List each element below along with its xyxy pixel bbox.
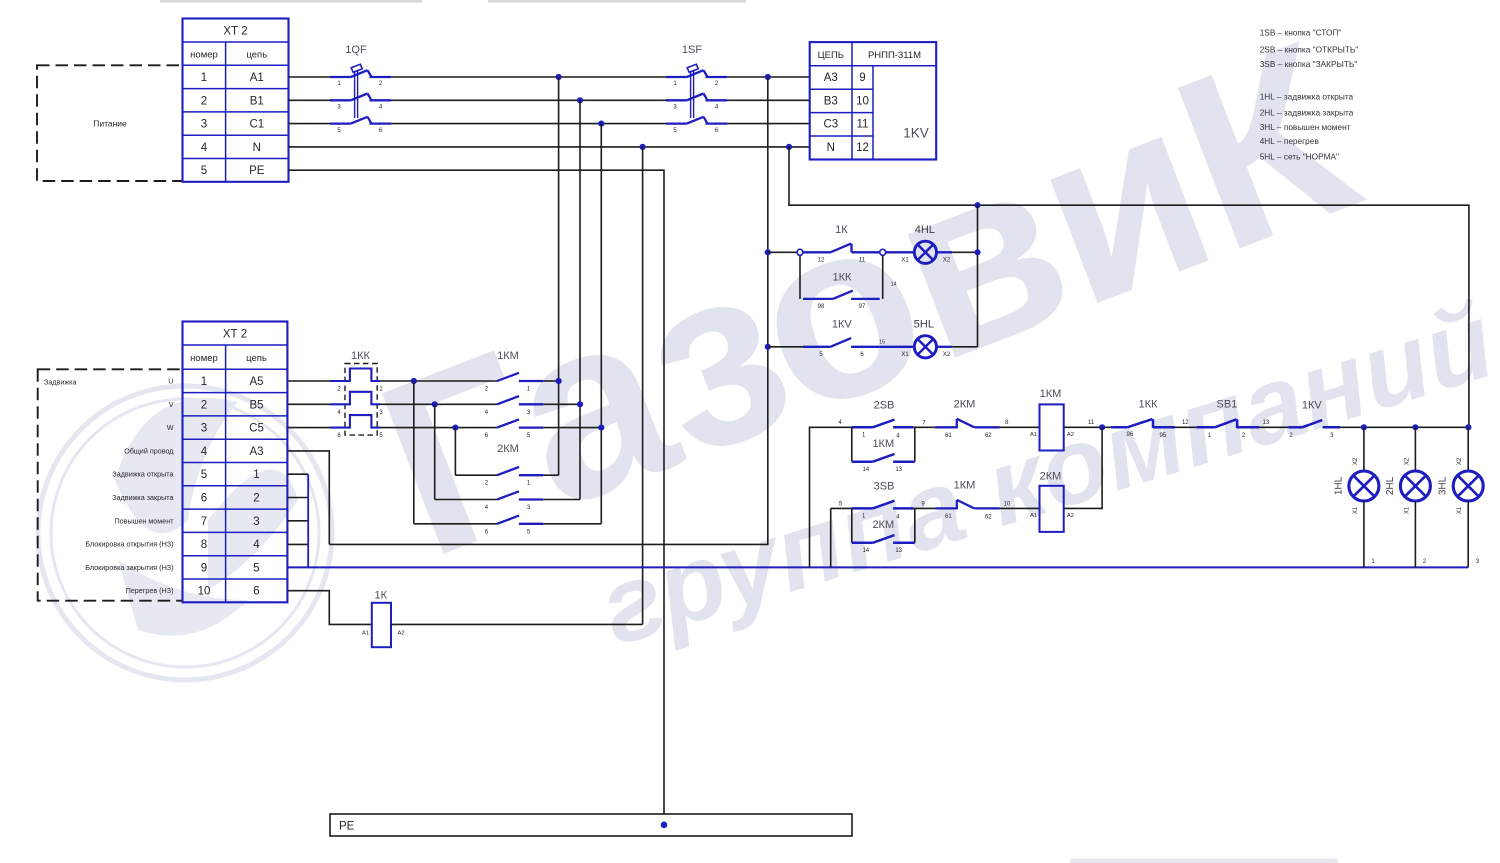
wire 1K coil return to N (391, 623, 643, 625)
button 3SB with 2KM holding contact (831, 481, 915, 555)
svg-text:3: 3 (201, 423, 207, 435)
wire B after 1QF (391, 99, 666, 101)
wire 2KM in row3 (414, 523, 497, 525)
svg-text:Х2: Х2 (1353, 457, 1359, 465)
node A tap (556, 74, 562, 80)
node lamp1 top (1361, 424, 1367, 430)
svg-text:3SB: 3SB (874, 481, 895, 493)
svg-text:РЕ: РЕ (249, 165, 265, 177)
row labels valve table (85, 377, 174, 596)
svg-text:Х1: Х1 (1353, 506, 1359, 514)
node W out (452, 425, 458, 431)
svg-text:Х1: Х1 (1457, 506, 1463, 514)
relay contact 1KV (768, 318, 885, 358)
button 2SB with 1KM holding contact (852, 400, 915, 474)
wire 1KK-SB1 (1175, 426, 1197, 428)
svg-text:11: 11 (859, 258, 866, 264)
wire 2SB-2KM nc (913, 426, 935, 428)
contactor 1KM main contacts (485, 350, 543, 439)
svg-text:3SB – кнопка "ЗАКРЫТЬ": 3SB – кнопка "ЗАКРЫТЬ" (1260, 59, 1358, 69)
svg-text:14: 14 (891, 282, 897, 288)
svg-text:1SF: 1SF (682, 44, 702, 56)
wire phase C vertical (600, 124, 602, 524)
wire to 1KM coil (1000, 426, 1040, 428)
wire 2KM in row1 (455, 474, 497, 476)
wire U table-1KK (287, 380, 330, 382)
svg-text:4: 4 (201, 446, 208, 458)
svg-text:Задвижка закрыта: Задвижка закрыта (112, 493, 173, 502)
contact 1KV nc (1288, 400, 1340, 440)
svg-text:9: 9 (201, 562, 207, 574)
wire C1 table-1QF (289, 123, 331, 125)
svg-text:В1: В1 (250, 95, 264, 107)
lamp 2HL (1385, 427, 1431, 567)
node branch left ring (797, 249, 803, 255)
svg-text:А1: А1 (250, 72, 264, 84)
svg-text:1КК: 1КК (833, 271, 853, 283)
svg-text:Блокировка закрытия (НЗ): Блокировка закрытия (НЗ) (85, 563, 173, 572)
wire N branch to lamps rail (789, 147, 1469, 427)
wire 5HL to right bus (952, 346, 977, 348)
svg-text:С5: С5 (249, 423, 264, 435)
svg-text:3: 3 (253, 516, 259, 528)
svg-text:N: N (827, 142, 835, 154)
contact 1KK nc (1111, 399, 1175, 439)
svg-text:А2: А2 (1067, 513, 1074, 519)
svg-text:3HL: 3HL (1438, 476, 1449, 495)
svg-text:96: 96 (1127, 432, 1134, 438)
node branch right ring (880, 249, 886, 255)
wire crossover B down (434, 404, 436, 499)
svg-text:U: U (168, 377, 173, 386)
wire 1KM out row3 (543, 427, 601, 429)
wire A3 to РНПП (727, 76, 810, 78)
node lamp2 top (1412, 424, 1418, 430)
wire U after 1KK (380, 380, 497, 382)
button SB1 stop (1197, 399, 1259, 440)
svg-text:5HL – сеть "НОРМА": 5HL – сеть "НОРМА" (1260, 152, 1339, 162)
lamp 5HL (880, 318, 953, 358)
wire row6 stub (287, 497, 308, 499)
wire 2KM out row2 (543, 499, 580, 501)
wire phase B vertical (579, 100, 581, 499)
wire 2KM out row1 (543, 474, 559, 476)
svg-text:Питание: Питание (93, 119, 127, 129)
lamp 4HL (886, 224, 953, 264)
svg-text:3: 3 (201, 119, 207, 131)
svg-text:V: V (169, 400, 174, 409)
wire row7 stub (287, 520, 308, 522)
wire phase A vertical (558, 77, 560, 475)
wire V after 1KK (380, 403, 497, 405)
legend notes (1260, 28, 1359, 162)
wire right bus vertical (977, 205, 979, 347)
node V out (432, 401, 438, 407)
wire A1 table-1QF (289, 76, 331, 78)
svg-text:2HL – задвижка закрыта: 2HL – задвижка закрыта (1260, 107, 1354, 117)
edge artifacts (160, 0, 422, 3)
node B tap (577, 97, 583, 103)
svg-text:10: 10 (856, 95, 869, 107)
svg-text:1КК: 1КК (351, 350, 371, 362)
wire PE table run (289, 170, 665, 814)
svg-text:5: 5 (201, 165, 207, 177)
svg-text:Общий провод: Общий провод (124, 446, 174, 455)
wire 2KM out row3 (543, 523, 601, 525)
svg-text:1QF: 1QF (345, 44, 367, 56)
svg-text:12: 12 (856, 142, 869, 154)
svg-text:Задвижка открыта: Задвижка открыта (112, 470, 173, 479)
svg-text:2КМ: 2КМ (1040, 471, 1062, 483)
svg-text:6: 6 (201, 493, 207, 505)
wire control left bus (810, 427, 852, 567)
svg-text:2: 2 (201, 95, 207, 107)
svg-text:5: 5 (253, 562, 259, 574)
svg-text:98: 98 (818, 304, 825, 310)
wire 1KV to lamps (1340, 426, 1469, 428)
wire C after 1QF (391, 123, 666, 125)
wire 4HL to right bus (952, 251, 977, 253)
svg-text:10: 10 (198, 586, 211, 598)
relay coil 1K (362, 590, 405, 648)
svg-text:61: 61 (945, 514, 952, 520)
node A3 tap after 1SF (765, 74, 771, 80)
svg-text:Х1: Х1 (901, 258, 909, 264)
svg-text:95: 95 (1159, 433, 1166, 439)
wire SB1-1KV (1259, 426, 1288, 428)
contact 2KM nc interlock (935, 399, 999, 440)
node 1KM-B (577, 401, 583, 407)
node right bus top (974, 202, 980, 208)
svg-text:10: 10 (1004, 502, 1011, 508)
node lamp3 top (1465, 424, 1471, 430)
svg-text:1: 1 (201, 72, 207, 84)
node N tap right (786, 144, 792, 150)
svg-text:61: 61 (945, 433, 952, 439)
terminal table XT2 upper (183, 19, 289, 182)
svg-text:Х1: Х1 (1404, 506, 1410, 514)
svg-text:1: 1 (201, 376, 207, 388)
wire control rail blue (287, 566, 1468, 568)
wire N table to РНПП (289, 146, 811, 148)
node PE connection (661, 822, 668, 829)
wire status bundle vertical (307, 474, 309, 567)
svg-text:4: 4 (201, 142, 208, 154)
lamp 3HL (1438, 427, 1484, 567)
wire V table-1KK (287, 403, 330, 405)
svg-text:62: 62 (985, 433, 992, 439)
svg-text:А5: А5 (249, 376, 263, 388)
wire A3 bus vertical (329, 77, 768, 544)
svg-text:С3: С3 (823, 119, 838, 131)
watermark logo ring (38, 386, 332, 680)
svg-text:А2: А2 (1067, 432, 1074, 438)
svg-text:1К: 1К (835, 224, 848, 236)
svg-text:W: W (167, 423, 174, 432)
svg-text:Повышен момент: Повышен момент (114, 516, 174, 525)
svg-text:8: 8 (201, 539, 207, 551)
svg-text:15: 15 (879, 340, 885, 346)
wire bus to 1K contact (768, 251, 797, 253)
wire W table-1KK (287, 427, 330, 429)
svg-text:13: 13 (1263, 420, 1270, 426)
wire row10 to 1K coil (287, 591, 371, 625)
svg-text:11: 11 (1088, 420, 1095, 426)
svg-text:1: 1 (253, 469, 259, 481)
svg-text:А1: А1 (1030, 513, 1037, 519)
node right bus 4HL (974, 249, 980, 255)
svg-text:6: 6 (253, 586, 259, 598)
svg-text:2КМ: 2КМ (497, 443, 519, 455)
node bus-4HL (765, 249, 771, 255)
supply dashed box Питание (37, 65, 183, 181)
wire 3SB-1KM nc (913, 507, 935, 509)
svg-text:Х1: Х1 (901, 352, 909, 358)
svg-text:1SB – кнопка "СТОП": 1SB – кнопка "СТОП" (1260, 28, 1342, 38)
contact 1KM nc interlock (935, 480, 999, 521)
svg-text:1КV: 1КV (1302, 400, 1323, 412)
wire B1 table-1QF (289, 99, 331, 101)
svg-text:SB1: SB1 (1217, 399, 1238, 411)
svg-text:2: 2 (201, 399, 207, 411)
svg-text:14: 14 (862, 467, 869, 473)
svg-text:цепь: цепь (246, 353, 267, 364)
svg-text:ХТ 2: ХТ 2 (223, 329, 247, 341)
node N tap (640, 144, 646, 150)
svg-text:4HL: 4HL (915, 224, 935, 236)
svg-text:А1: А1 (1030, 432, 1037, 438)
wire C3 to РНПП (727, 123, 810, 125)
breaker 1SF (666, 44, 727, 134)
svg-text:9: 9 (859, 72, 865, 84)
relay contact 1K (803, 224, 880, 264)
wire control row2 bus (830, 508, 832, 567)
wire N vertical to 1K coil (642, 147, 644, 625)
wire row4 A3 (287, 451, 329, 545)
svg-text:1КМ: 1КМ (1040, 388, 1062, 400)
svg-text:N: N (253, 142, 261, 154)
svg-text:2: 2 (253, 493, 259, 505)
svg-text:цепь: цепь (246, 50, 267, 61)
wire W after 1KK (380, 427, 497, 429)
svg-text:5: 5 (201, 469, 207, 481)
node 11 (1099, 424, 1105, 430)
wire 2KM in row2 (435, 499, 497, 501)
svg-text:1HL – задвижка открыта: 1HL – задвижка открыта (1260, 92, 1354, 102)
contact 1KK parallel (800, 255, 897, 310)
svg-text:А1: А1 (362, 631, 369, 637)
svg-text:1КМ: 1КМ (497, 350, 519, 362)
wire to 2KM coil (1000, 507, 1040, 509)
svg-text:14: 14 (862, 548, 869, 554)
svg-text:А3: А3 (824, 72, 838, 84)
wire 1KM out row2 (543, 403, 580, 405)
svg-text:3HL – повышен момент: 3HL – повышен момент (1260, 122, 1351, 132)
svg-text:Блокировка открытия (НЗ): Блокировка открытия (НЗ) (85, 540, 173, 549)
svg-text:1КМ: 1КМ (954, 480, 976, 492)
wire A after 1QF (391, 76, 666, 78)
svg-text:В5: В5 (249, 399, 263, 411)
svg-text:1КМ: 1КМ (872, 438, 894, 450)
svg-text:РЕ: РЕ (339, 821, 355, 833)
wire row8 stub (287, 543, 308, 545)
svg-text:7: 7 (201, 516, 207, 528)
svg-text:97: 97 (859, 304, 866, 310)
svg-text:РНПП-311М: РНПП-311М (868, 50, 921, 61)
lamp 1HL (1333, 427, 1379, 567)
wire 2KM coil out up (1064, 427, 1102, 508)
svg-text:1КК: 1КК (1139, 399, 1159, 411)
svg-text:Х2: Х2 (1404, 457, 1410, 465)
svg-text:62: 62 (985, 514, 992, 520)
svg-text:номер: номер (190, 353, 218, 364)
svg-text:4HL – перегрев: 4HL – перегрев (1260, 136, 1320, 146)
wire crossover A down (413, 381, 415, 524)
node C tap (598, 121, 604, 127)
svg-text:Перегрев (НЗ): Перегрев (НЗ) (126, 586, 174, 595)
svg-text:5HL: 5HL (914, 318, 934, 330)
node 1KM-C (598, 425, 604, 431)
svg-text:Задвижка: Задвижка (44, 378, 76, 387)
wire row5 stub (287, 473, 308, 475)
svg-text:В3: В3 (824, 95, 838, 107)
svg-text:4: 4 (253, 539, 260, 551)
device РНПП-311М 1KV (810, 42, 937, 159)
contactor coil 1KM (1030, 388, 1074, 451)
wire 1KM out row1 (543, 380, 559, 382)
svg-text:ЦЕПЬ: ЦЕПЬ (818, 50, 844, 61)
svg-text:А2: А2 (397, 631, 404, 637)
svg-text:А3: А3 (249, 446, 263, 458)
wire 1KM coil out (1064, 426, 1111, 428)
wire B3 to РНПП (727, 99, 810, 101)
thermal overload 1KK (330, 350, 383, 439)
svg-text:Х2: Х2 (1457, 457, 1463, 465)
terminal table XT2 lower (183, 322, 288, 603)
svg-text:1KV: 1KV (903, 126, 929, 141)
contactor coil 2KM (1030, 471, 1074, 532)
PE bar (330, 814, 852, 836)
svg-text:Х2: Х2 (943, 258, 951, 264)
wire crossover C down (454, 428, 456, 476)
breaker 1QF (330, 44, 391, 134)
svg-text:13: 13 (895, 467, 902, 473)
svg-text:2HL: 2HL (1385, 476, 1396, 495)
valve dashed box Задвижка (38, 369, 183, 600)
node bus-5HL (765, 344, 771, 350)
svg-text:12: 12 (1182, 420, 1189, 426)
node 1KM-A (556, 378, 562, 384)
svg-text:12: 12 (818, 258, 825, 264)
contactor 2KM main contacts (485, 443, 543, 535)
svg-text:2КМ: 2КМ (954, 399, 976, 411)
svg-text:ХТ 2: ХТ 2 (223, 26, 247, 38)
svg-text:1КV: 1КV (832, 318, 853, 330)
svg-text:2КМ: 2КМ (872, 519, 894, 531)
svg-text:2SB: 2SB (874, 400, 895, 412)
svg-text:2SB – кнопка "ОТКРЫТЬ": 2SB – кнопка "ОТКРЫТЬ" (1260, 44, 1359, 54)
svg-text:11: 11 (857, 119, 869, 131)
svg-text:С1: С1 (249, 119, 264, 131)
node U out (411, 378, 417, 384)
svg-text:1HL: 1HL (1333, 476, 1344, 495)
svg-text:13: 13 (895, 548, 902, 554)
svg-text:Х2: Х2 (943, 352, 951, 358)
svg-text:номер: номер (190, 50, 218, 61)
svg-text:1К: 1К (375, 590, 388, 602)
